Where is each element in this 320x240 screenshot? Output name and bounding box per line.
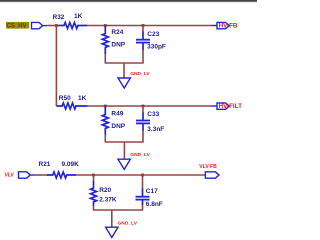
port HV-FILT (211, 103, 229, 109)
svg-text:GND_LV: GND_LV (118, 220, 138, 226)
svg-text:6.8nF: 6.8nF (146, 201, 163, 208)
junction C33 top node (142, 105, 145, 108)
svg-text:3.3nF: 3.3nF (147, 126, 164, 133)
svg-text:R50: R50 (59, 95, 71, 102)
svg-text:DNP: DNP (111, 42, 125, 49)
svg-text:C17: C17 (146, 188, 158, 195)
ground GND_LV row2 (118, 159, 130, 169)
wire bottom row1 R24 to C23 (105, 62, 144, 64)
svg-text:R21: R21 (39, 161, 51, 168)
wire VLV port to R21 (35, 174, 48, 176)
junction R24 top node (104, 24, 107, 27)
wire bottom row2 R49 to C33 (105, 141, 144, 143)
svg-text:VLV-FB: VLV-FB (199, 164, 217, 170)
junction R49 top node (104, 105, 107, 108)
wire R32 to HV-FB port (87, 25, 211, 27)
wire R24 bottom lead (104, 54, 106, 64)
wire C17 bottom lead (142, 205, 144, 211)
svg-text:C23: C23 (147, 31, 159, 38)
capacitor C17 (136, 189, 150, 206)
ground GND_LV row1 (118, 78, 130, 88)
port VLV (19, 172, 36, 178)
net label CS_HV (6, 22, 29, 30)
svg-text:R49: R49 (111, 111, 123, 118)
capacitor C33 (136, 113, 150, 132)
wire row2 ground stub (123, 142, 125, 159)
svg-text:9.09K: 9.09K (62, 161, 80, 168)
capacitor C23 (136, 32, 150, 51)
resistor R21 (47, 172, 76, 178)
resistor R32 (59, 23, 88, 29)
ground GND_LV row3 (106, 227, 118, 237)
junction R20 top node (92, 174, 95, 177)
resistor R24 (102, 26, 108, 54)
wire R20 bottom lead (93, 206, 95, 211)
svg-text:R24: R24 (111, 29, 123, 36)
svg-text:HV-FILT: HV-FILT (219, 103, 242, 110)
svg-text:2.37K: 2.37K (99, 197, 117, 204)
svg-text:CS_HV: CS_HV (7, 24, 27, 30)
svg-text:HV-FB: HV-FB (219, 23, 238, 30)
wire R20 top stub (93, 175, 95, 182)
svg-text:1K: 1K (74, 13, 83, 20)
wire C23 bottom lead (142, 50, 144, 64)
wire R21 to VLV-FB port (76, 174, 205, 176)
svg-text:GND_LV: GND_LV (130, 152, 150, 158)
resistor R50 (56, 103, 87, 109)
junction C23 top node (142, 24, 145, 27)
junction CS_HV branch node (55, 24, 58, 27)
wire R49 bottom lead (104, 135, 106, 143)
svg-text:R20: R20 (99, 187, 111, 194)
wire vertical CS_HV branch down to R50 (55, 26, 57, 107)
svg-text:1K: 1K (78, 95, 87, 102)
junction C17 top node (141, 174, 144, 177)
port CS_HV (32, 22, 48, 28)
svg-text:R32: R32 (53, 14, 65, 21)
wire C33 bottom lead (142, 131, 144, 143)
wire row3 ground stub (111, 210, 113, 227)
wire R50 to HV-FILT port (88, 105, 212, 107)
svg-text:VLV: VLV (5, 173, 15, 179)
svg-text:330pF: 330pF (147, 43, 166, 50)
svg-text:C33: C33 (147, 111, 159, 118)
wire CS_HV port to R32 (48, 25, 59, 27)
svg-text:DNP: DNP (111, 123, 125, 130)
wire C17 top stub (142, 175, 144, 189)
resistor R20 (91, 181, 97, 206)
svg-text:GND_LV: GND_LV (130, 71, 150, 77)
port VLV-FB (205, 172, 219, 178)
wire bottom row3 R20 to C17 (93, 209, 143, 211)
resistor R49 (102, 107, 108, 135)
wire C33 top stub (142, 106, 144, 113)
port HV-FB (211, 22, 229, 28)
wire row1 ground stub (123, 63, 125, 78)
wire C23 top stub (142, 26, 144, 33)
